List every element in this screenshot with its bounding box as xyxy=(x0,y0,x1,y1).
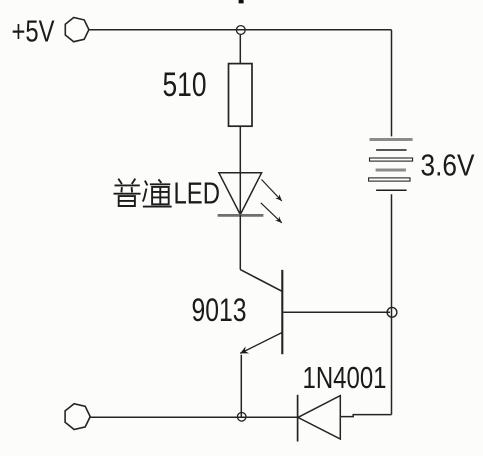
wire emitter down xyxy=(240,355,242,417)
battery B1 bottom wire xyxy=(391,194,393,414)
LED anode triangle xyxy=(219,173,262,215)
battery B1 top wire xyxy=(391,30,393,137)
svg-text:1N4001: 1N4001 xyxy=(303,361,387,395)
wire base to battery node xyxy=(283,311,390,313)
battery B1 plate 5 long hollow xyxy=(369,178,410,181)
label 普通 (hand-drawn glyph strokes) xyxy=(114,179,172,207)
wire bottom horizontal left xyxy=(90,416,297,418)
svg-text:LED: LED xyxy=(174,176,221,211)
wire resistor to LED xyxy=(239,126,241,215)
LED cathode bar xyxy=(218,214,264,217)
terminal +5V xyxy=(65,18,89,42)
battery B1 plate 3 long hollow xyxy=(370,158,413,161)
transistor Q1 emitter lead with arrow xyxy=(240,332,282,353)
battery B1 plate 6 short xyxy=(376,189,407,191)
LED light arrow 1 xyxy=(262,180,282,201)
battery B1 plate 2 short xyxy=(376,149,407,151)
battery B1 plate 1 long xyxy=(370,138,413,141)
transistor Q1 base bar xyxy=(281,270,283,354)
node base junction xyxy=(387,307,397,317)
svg-text:3.6V: 3.6V xyxy=(421,148,475,183)
diode D1 triangle xyxy=(298,396,340,439)
diode D1 cathode bar xyxy=(297,395,299,442)
svg-text:510: 510 xyxy=(163,66,207,104)
wire junction to resistor xyxy=(239,34,241,63)
wire LED to transistor collector xyxy=(239,215,241,270)
cropped title mark xyxy=(239,0,244,3)
wire top horizontal xyxy=(89,29,392,31)
svg-text:+5V: +5V xyxy=(12,14,55,49)
node bottom junction xyxy=(237,413,246,422)
battery B1 plate 4 short xyxy=(376,169,406,172)
LED light arrow 2 xyxy=(261,203,282,223)
svg-text:9013: 9013 xyxy=(192,292,247,328)
transistor Q1 collector lead xyxy=(240,270,282,292)
terminal bottom xyxy=(65,404,90,430)
wire diode to battery corner xyxy=(340,415,391,417)
resistor 510 xyxy=(229,64,253,127)
node top junction xyxy=(236,26,245,35)
